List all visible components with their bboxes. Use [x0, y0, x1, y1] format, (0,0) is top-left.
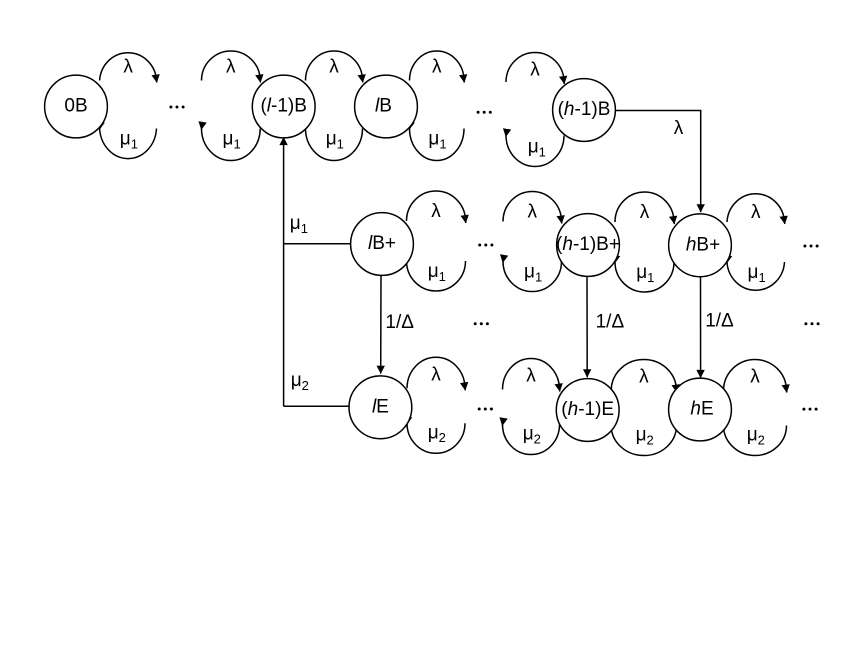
wire 1/delta arrow lB+ to lE — [380, 275, 382, 373]
state (h-1)B circle — [553, 79, 616, 142]
state (h-1)E circle — [556, 379, 619, 442]
wire mu arc dots/(l-1)B — [201, 129, 260, 161]
svg-text:hE: hE — [690, 399, 713, 420]
wire lambda arc lB+/dots — [407, 191, 466, 223]
wire lambda arc dots/(h-1)E — [503, 359, 560, 392]
wire mu2 horizontal line lE to vertical — [284, 405, 350, 407]
svg-text:1/Δ: 1/Δ — [705, 311, 734, 332]
wire mu arc lB/dots — [409, 129, 464, 161]
svg-text:λ: λ — [526, 366, 536, 387]
svg-text:μ1: μ1 — [748, 262, 766, 285]
node ellipsis dots row2 gap1 — [478, 244, 493, 247]
svg-text:μ2: μ2 — [291, 370, 309, 393]
svg-text:λ: λ — [123, 57, 133, 78]
wire mu arc dots/(h-1)B — [506, 136, 564, 167]
wire 1/delta arrow (h-1)B+ to (h-1)E — [586, 276, 588, 377]
state 0B circle — [45, 75, 108, 138]
state (h-1)B+ circle — [557, 214, 620, 277]
state (l-1)B circle — [252, 75, 315, 138]
wire lambda arc dots/(h-1)B+ — [503, 191, 562, 223]
svg-text:μ1: μ1 — [290, 213, 308, 236]
wire lambda arc 0B/dots — [100, 53, 157, 83]
node ellipsis dots row2 gap2 — [803, 245, 818, 248]
svg-text:1/Δ: 1/Δ — [596, 312, 625, 333]
svg-text:μ1: μ1 — [428, 261, 446, 284]
svg-text:(h-1)E: (h-1)E — [561, 399, 614, 420]
svg-text:μ2: μ2 — [428, 422, 446, 445]
wire mu arc (h-1)E/hE — [611, 426, 677, 456]
svg-text:μ1: μ1 — [528, 137, 546, 160]
wire mu arc dots/(h-1)B+ — [503, 262, 562, 292]
svg-text:μ1: μ1 — [428, 129, 446, 152]
wire lambda arc lB/dots — [410, 51, 465, 83]
svg-text:λ: λ — [640, 202, 650, 223]
svg-text:λ: λ — [674, 118, 684, 139]
wire mu arc (l-1)B/lB — [305, 129, 362, 161]
wire 1/delta arrow hB+ to hE — [700, 277, 702, 378]
svg-text:hB+: hB+ — [686, 235, 720, 256]
wire mu arc hE/dots — [723, 426, 786, 456]
node ellipsis dots mid gap2 — [804, 322, 819, 325]
wire mu vertical line to (l-1)B — [283, 137, 285, 406]
state hE circle — [669, 378, 732, 441]
wire lambda arc (l-1)B/lB — [306, 51, 363, 82]
wire lambda arc hB+/dots — [727, 194, 785, 224]
svg-text:lB: lB — [375, 96, 392, 117]
svg-text:μ2: μ2 — [636, 425, 654, 448]
wire mu arc (h-1)B+/hB+ — [615, 262, 674, 292]
wire lambda arc (h-1)B+/hB+ — [615, 192, 674, 224]
svg-text:λ: λ — [431, 364, 441, 385]
state lE circle — [349, 376, 412, 439]
wire lambda arc (h-1)E/hE — [611, 359, 677, 392]
svg-text:μ1: μ1 — [524, 262, 542, 285]
wire mu arc lB+/dots — [406, 261, 465, 291]
svg-text:lE: lE — [372, 397, 389, 418]
state lB+ circle — [351, 213, 414, 276]
svg-text:λ: λ — [751, 202, 761, 223]
svg-text:(h-1)B: (h-1)B — [558, 99, 611, 120]
wire lambda arc lE/dots — [407, 357, 465, 390]
state lB circle — [355, 75, 418, 138]
svg-text:μ2: μ2 — [747, 425, 765, 448]
wire lambda L-path (h-1)B to hB+ — [616, 111, 701, 213]
svg-text:lB+: lB+ — [368, 233, 396, 254]
state hB+ circle — [669, 214, 732, 277]
node ellipsis dots row3 gap1 — [478, 408, 493, 411]
svg-text:μ1: μ1 — [223, 129, 241, 152]
wire mu arc lE/dots — [407, 423, 465, 453]
svg-text:0B: 0B — [64, 96, 87, 117]
svg-text:λ: λ — [527, 202, 537, 223]
svg-text:1/Δ: 1/Δ — [385, 312, 414, 333]
svg-text:λ: λ — [530, 60, 540, 81]
svg-text:μ2: μ2 — [523, 424, 541, 447]
node ellipsis dots row1 gap2 — [477, 111, 492, 114]
svg-text:(h-1)B+: (h-1)B+ — [556, 234, 620, 255]
wire mu arc hB+/dots — [727, 262, 785, 290]
wire lambda arc dots/(h-1)B — [506, 52, 564, 84]
node ellipsis dots row1 gap1 — [169, 106, 184, 109]
svg-text:λ: λ — [432, 57, 442, 78]
node ellipsis dots row3 gap2 — [802, 408, 817, 411]
svg-text:λ: λ — [226, 57, 236, 78]
svg-text:μ1: μ1 — [326, 129, 344, 152]
node ellipsis dots mid gap1 — [474, 322, 489, 325]
wire lambda arc dots/(l-1)B — [202, 51, 261, 83]
wire lambda arc hE/dots — [724, 360, 787, 393]
svg-text:μ1: μ1 — [120, 129, 138, 152]
svg-text:μ1: μ1 — [636, 262, 654, 285]
svg-text:(l-1)B: (l-1)B — [260, 96, 306, 117]
svg-text:λ: λ — [329, 57, 339, 78]
svg-text:λ: λ — [639, 367, 649, 388]
wire mu arc 0B/dots — [99, 129, 156, 159]
svg-text:λ: λ — [431, 201, 441, 222]
svg-text:λ: λ — [750, 367, 760, 388]
wire mu arc dots/(h-1)E — [502, 425, 559, 455]
wire mu1 horizontal line lB+ to vertical — [284, 243, 351, 245]
